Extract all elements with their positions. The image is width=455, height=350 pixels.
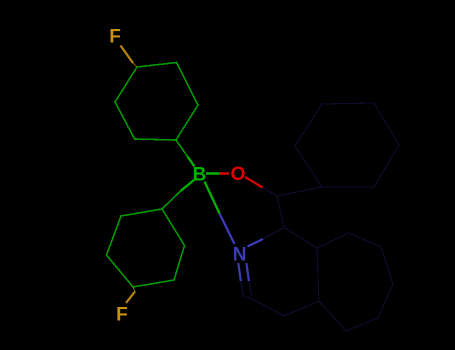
bond B-C1' bright half	[181, 180, 195, 191]
svg-text:F: F	[116, 305, 128, 326]
quinoline benzo ring (faint)	[317, 233, 393, 331]
svg-text:O: O	[231, 164, 246, 185]
phenyl hexagon	[295, 103, 399, 187]
bond B-C1' dark half	[162, 191, 181, 209]
bond B-N green half	[205, 182, 220, 214]
svg-text:N: N	[233, 244, 247, 265]
svg-text:F: F	[109, 27, 121, 48]
quinoline pyridine ring (faint part)	[247, 228, 319, 317]
ring C6H3F top-left: bonds	[115, 63, 198, 141]
bond B-C1 dark half	[176, 140, 188, 157]
bond F2-C4' bright half	[126, 292, 135, 304]
bond B-O red half	[220, 172, 230, 175]
bond C-alpha - C2(quinolyl)	[277, 196, 284, 228]
bond N-C10b dark half	[263, 228, 284, 240]
bond C-alpha to phenyl ipso	[277, 187, 322, 196]
bond O-C10 red half	[245, 177, 263, 188]
bond B-N blue half	[220, 214, 235, 245]
bond F1-C4 bright half	[121, 46, 134, 64]
double bond N=C2 bright halves	[238, 263, 241, 281]
ring C6H3F bottom-left: bonds	[107, 209, 185, 287]
bond F1-C4 dark half	[133, 63, 137, 67]
bond B-O green half	[206, 172, 220, 175]
double bond N=C2 dark halves	[241, 281, 244, 297]
bond O-C10 dark half	[263, 188, 278, 197]
bond N-C10b bright half	[248, 239, 264, 247]
bond F2-C4' dark half	[133, 287, 135, 292]
phenyl ring on C-alpha (faint)	[247, 103, 399, 331]
bond B-C1 bright half	[188, 157, 195, 167]
